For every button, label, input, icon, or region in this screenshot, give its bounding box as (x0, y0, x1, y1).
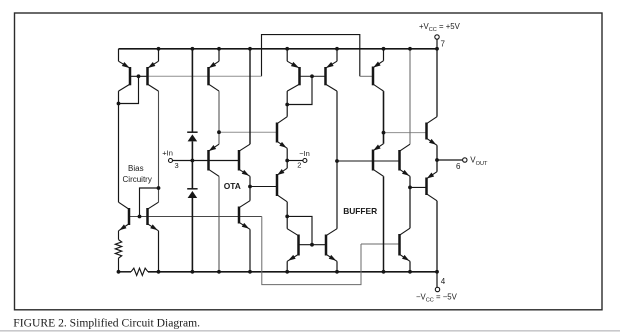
svg-text:6: 6 (456, 162, 461, 171)
svg-text:VOUT: VOUT (470, 156, 488, 167)
svg-text:Circuitry: Circuitry (123, 175, 152, 184)
svg-text:OTA: OTA (224, 181, 241, 191)
svg-text:2: 2 (297, 161, 301, 170)
svg-text:+VCC = +5V: +VCC = +5V (419, 22, 461, 33)
svg-text:+In: +In (162, 148, 173, 157)
svg-text:Bias: Bias (128, 164, 144, 173)
svg-text:4: 4 (441, 277, 446, 286)
svg-text:3: 3 (175, 161, 179, 170)
svg-text:−VCC = −5V: −VCC = −5V (416, 293, 458, 304)
svg-text:7: 7 (441, 40, 446, 49)
svg-text:FIGURE 2. Simplified Circuit D: FIGURE 2. Simplified Circuit Diagram. (13, 316, 200, 329)
svg-text:BUFFER: BUFFER (343, 206, 377, 216)
svg-text:−In: −In (299, 149, 310, 158)
